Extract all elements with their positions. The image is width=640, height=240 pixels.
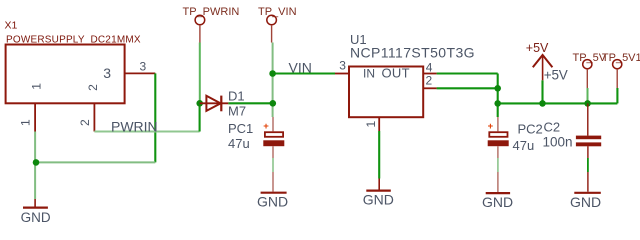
svg-text:M7: M7 [228,104,246,119]
svg-text:D1: D1 [228,89,245,104]
svg-text:+5V: +5V [544,68,568,83]
svg-text:IN: IN [363,66,375,80]
svg-text:47u: 47u [513,138,535,153]
svg-text:PC2: PC2 [518,122,543,137]
svg-text:GND: GND [363,192,394,208]
svg-text:NCP1117ST50T3G: NCP1117ST50T3G [350,45,475,61]
svg-text:47u: 47u [228,136,250,151]
svg-text:+: + [488,121,494,132]
svg-text:GND: GND [257,193,288,209]
svg-text:3: 3 [339,59,346,73]
svg-text:X1: X1 [5,19,18,31]
svg-text:3: 3 [140,60,147,74]
svg-text:TP_VIN: TP_VIN [258,6,297,18]
svg-text:GND: GND [570,194,601,210]
svg-text:VIN: VIN [289,60,312,76]
svg-text:1: 1 [364,121,378,128]
svg-text:2: 2 [78,119,92,126]
svg-text:GND: GND [21,210,51,225]
svg-text:TP_PWRIN: TP_PWRIN [183,6,240,18]
svg-text:PWRIN: PWRIN [111,119,158,135]
svg-text:PC1: PC1 [228,121,253,136]
svg-text:+5V: +5V [526,41,549,55]
svg-text:+: + [263,121,269,132]
svg-text:GND: GND [482,194,513,210]
svg-text:OUT: OUT [382,65,410,80]
svg-text:1: 1 [19,119,33,126]
svg-text:4: 4 [426,61,433,75]
svg-text:2: 2 [426,74,433,88]
svg-text:1: 1 [30,83,44,90]
svg-text:C2: C2 [544,119,561,134]
svg-text:100n: 100n [543,134,573,149]
svg-text:3: 3 [103,65,111,81]
svg-text:2: 2 [86,84,100,91]
